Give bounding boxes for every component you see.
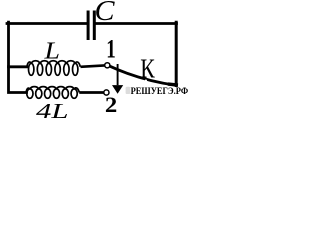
svg-text:1: 1 (106, 35, 116, 64)
svg-text:C: C (95, 0, 115, 27)
svg-text:4L: 4L (36, 99, 69, 123)
svg-text:2: 2 (105, 92, 117, 117)
svg-text:L: L (43, 39, 60, 65)
svg-text:РЕШУЕГЭ.РФ: РЕШУЕГЭ.РФ (131, 86, 189, 96)
svg-text:К: К (140, 54, 155, 84)
